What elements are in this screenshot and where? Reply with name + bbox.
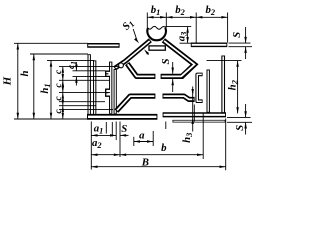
svg-text:b: b	[161, 142, 167, 154]
bottom flange right part	[163, 112, 226, 117]
node bend eye at web1 junction	[119, 63, 124, 68]
top-left flange	[87, 43, 119, 48]
dimension a	[134, 129, 153, 142]
wire extension lines for c chain	[59, 67, 119, 110]
node small plate under dome	[149, 46, 165, 50]
svg-text:S: S	[121, 123, 127, 135]
node tab 2 on wall C	[106, 89, 110, 96]
node tab 1 on wall C	[106, 71, 110, 76]
node dome seam (crimp bulb with break line)	[147, 26, 166, 40]
wire mid-lower right bar with joggle	[163, 96, 195, 99]
wire right wall R2	[221, 56, 225, 114]
dimension c1	[67, 61, 106, 85]
svg-text:B: B	[141, 156, 149, 168]
svg-text:h: h	[19, 70, 31, 76]
dimension S top-right	[229, 27, 253, 59]
wire left wall A	[87, 54, 90, 118]
dimension b2 (second)	[196, 4, 227, 18]
svg-text:c1: c1	[67, 61, 78, 69]
wire right web + mid-right flange bend	[161, 40, 195, 76]
svg-text:S: S	[231, 32, 243, 38]
top-right flange	[191, 42, 228, 47]
dimension H	[2, 43, 89, 119]
bottom flange right overlap sheet	[173, 120, 226, 123]
wire left wall B	[93, 60, 96, 114]
dimension S center	[160, 58, 174, 92]
svg-text:H: H	[2, 76, 14, 86]
wire left wall C	[109, 62, 112, 114]
dimension a2	[91, 137, 120, 156]
dimension S bottom (sheet in section)	[120, 123, 129, 137]
wire right channel bracket	[197, 74, 202, 101]
wire left web S1 (diagonal sheet from dome)	[115, 40, 151, 68]
dimension h3	[181, 87, 194, 143]
wire top-left flange extension line for H	[14, 42, 88, 44]
wire right wall R1	[206, 70, 209, 113]
dimension c chain	[54, 67, 64, 119]
dimension h2	[207, 61, 242, 114]
dimension a3	[165, 27, 191, 44]
svg-text:a: a	[139, 129, 145, 141]
dimension S bottom-right	[227, 104, 252, 135]
wire mid-lower left bar with diagonal leg	[116, 96, 155, 111]
dimension a1	[91, 123, 116, 137]
wire mid-left flange	[127, 64, 155, 77]
svg-text:S: S	[234, 125, 246, 131]
dimension B	[91, 156, 225, 168]
wire extension lines for top dims	[147, 13, 227, 43]
dimension h1	[39, 60, 94, 119]
dimension h	[19, 54, 88, 119]
wire left wall D	[114, 69, 117, 114]
wire bottom extension verticals	[91, 105, 225, 171]
dimension S1 leader	[120, 17, 149, 55]
dimension b1	[147, 4, 166, 18]
dimension b	[120, 142, 203, 156]
bottom flange left part	[87, 114, 157, 120]
svg-text:S: S	[160, 58, 172, 64]
dimension b2 (first)	[166, 4, 196, 18]
